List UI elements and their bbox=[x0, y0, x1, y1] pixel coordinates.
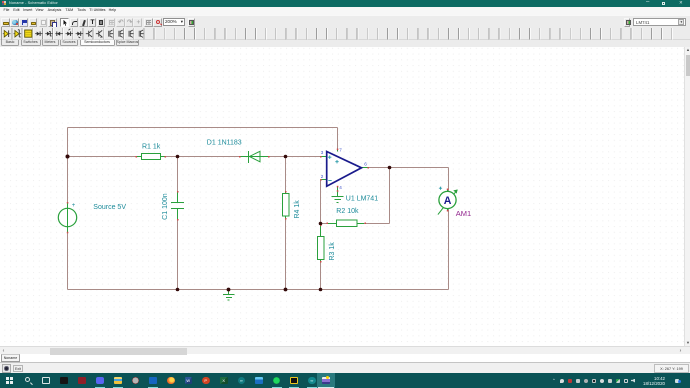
svg-text:A: A bbox=[444, 195, 452, 207]
svg-text:C1 100n: C1 100n bbox=[162, 193, 169, 220]
svg-text:7: 7 bbox=[339, 147, 342, 152]
svg-text:R1 1k: R1 1k bbox=[142, 143, 161, 150]
svg-text:D1 1N1183: D1 1N1183 bbox=[207, 140, 242, 147]
svg-text:3: 3 bbox=[321, 150, 324, 155]
svg-text:AM1: AM1 bbox=[456, 209, 471, 218]
svg-text:6: 6 bbox=[364, 161, 367, 166]
svg-text:Source 5V: Source 5V bbox=[93, 204, 126, 211]
svg-text:R3 1k: R3 1k bbox=[329, 242, 336, 261]
svg-text:4: 4 bbox=[339, 185, 342, 190]
svg-text:U1 LM741: U1 LM741 bbox=[346, 195, 378, 202]
svg-text:R2 10k: R2 10k bbox=[336, 208, 359, 215]
svg-text:2: 2 bbox=[321, 174, 324, 179]
svg-text:R4 1k: R4 1k bbox=[294, 200, 301, 219]
svg-text:+: + bbox=[72, 203, 76, 209]
